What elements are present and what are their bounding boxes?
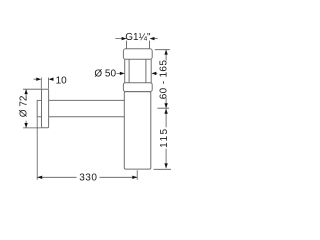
svg-text:Ø 50: Ø 50 <box>94 68 116 79</box>
svg-text:330: 330 <box>79 173 97 184</box>
svg-text:115: 115 <box>159 127 170 147</box>
svg-text:60 - 165: 60 - 165 <box>158 60 169 100</box>
svg-text:10: 10 <box>56 75 68 86</box>
svg-text:Ø 72: Ø 72 <box>19 95 30 117</box>
svg-text:G1¼": G1¼" <box>125 31 151 43</box>
